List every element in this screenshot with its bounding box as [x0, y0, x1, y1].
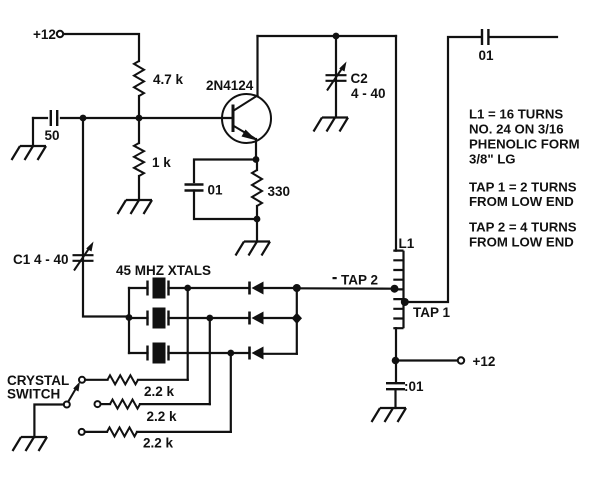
inductor L1 — [393, 251, 403, 329]
ground C2 — [314, 118, 349, 132]
wire C1 branch — [83, 118, 129, 317]
diode D3 — [248, 347, 251, 360]
wire L1 bottom — [395, 328, 397, 383]
node D2 bus junction (diamond) — [292, 313, 302, 324]
terminal switch position 2 — [95, 401, 101, 407]
node L1 bottom junction — [392, 357, 400, 365]
node TAP 1 — [401, 298, 409, 306]
crystal Y1 45 MHz — [148, 281, 169, 296]
node base junction R1/R2 — [136, 115, 143, 122]
svg-text:NO. 24 ON 3/16: NO. 24 ON 3/16 — [469, 122, 564, 137]
svg-text:2N4124: 2N4124 — [206, 78, 254, 93]
svg-text::01: :01 — [404, 379, 424, 394]
wire output — [490, 36, 558, 38]
resistor R3 330 — [252, 170, 262, 206]
wire collector up — [256, 36, 258, 96]
capacitor C2 4-40 trimmer — [326, 75, 347, 81]
svg-text:4 - 40: 4 - 40 — [351, 86, 386, 101]
capacitor C3 .01 emitter — [185, 185, 204, 191]
svg-text:1 k: 1 k — [152, 155, 171, 170]
terminal +12 feed — [458, 357, 464, 363]
wire to +12 feed — [396, 359, 458, 361]
wire Y1 right lead — [169, 287, 188, 289]
node C2 junction — [333, 33, 340, 40]
ground input — [12, 146, 47, 160]
capacitor .01 output — [482, 29, 488, 45]
svg-text:TAP 2 = 4 TURNS: TAP 2 = 4 TURNS — [469, 220, 577, 235]
svg-text:C2: C2 — [351, 71, 368, 86]
wire Y3 right lead — [169, 352, 231, 354]
ground R2 — [118, 200, 153, 214]
wire Y1 node down to R4 — [187, 288, 189, 380]
svg-text:4.7 k: 4.7 k — [153, 72, 184, 87]
resistor R2 1 k — [134, 143, 144, 176]
svg-text:SWITCH: SWITCH — [7, 387, 60, 402]
node Y2 output junction — [206, 315, 213, 322]
svg-text:FROM LOW END: FROM LOW END — [469, 194, 574, 209]
wire R5 right lead — [140, 403, 210, 405]
node emitter junction — [253, 156, 260, 163]
wire R1 to base node — [138, 96, 140, 118]
wire R4 right lead — [138, 379, 188, 381]
svg-text:FROM LOW END: FROM LOW END — [469, 235, 574, 250]
resistor R4 2.2 k — [108, 375, 139, 384]
wire Y3 to D3 — [231, 352, 250, 354]
wire Y3 left lead — [129, 352, 148, 354]
transistor Q1 2N4124 body — [222, 94, 271, 143]
node Y1 output junction — [184, 285, 191, 292]
svg-text:3/8" LG: 3/8" LG — [469, 152, 516, 167]
wire Y2 to D2 — [210, 317, 250, 319]
terminal +12 supply — [57, 31, 63, 37]
wire Y2 left lead — [129, 317, 148, 319]
capacitor C1 4-40 trimmer — [73, 255, 94, 261]
node D1 bus junction — [293, 284, 301, 292]
svg-text:L1 = 16 TURNS: L1 = 16 TURNS — [469, 107, 563, 122]
wire +12 to R1 — [64, 34, 140, 61]
svg-text:TAP 1: TAP 1 — [413, 305, 451, 320]
wire C3 bottom — [194, 191, 257, 220]
svg-text:45 MHZ XTALS: 45 MHZ XTALS — [116, 263, 211, 278]
crystal Y2 45 MHz — [148, 311, 169, 326]
wire bypass to ground — [394, 390, 396, 409]
wire R4 left lead — [85, 379, 107, 381]
svg-text:PHENOLIC FORM: PHENOLIC FORM — [469, 137, 580, 152]
crystal Y3 45 MHz — [148, 346, 169, 361]
node TAP 2 — [391, 285, 399, 293]
wire top rail — [258, 35, 397, 37]
wire R3 bottom lead — [256, 206, 258, 219]
svg-text:330: 330 — [268, 184, 291, 199]
switch S1 arm arrowhead — [73, 382, 80, 392]
wire base node — [61, 117, 233, 119]
transistor Q1 emitter arrowhead — [242, 130, 258, 141]
terminal switch common — [64, 402, 70, 408]
transistor Q1 collector stroke — [233, 96, 258, 112]
terminal switch position 3 — [79, 429, 85, 435]
wire Y2 node down to R5 — [209, 318, 211, 404]
transistor Q1 emitter stroke — [233, 126, 254, 139]
wire R3 top lead — [256, 160, 258, 171]
svg-text:2.2 k: 2.2 k — [147, 409, 178, 424]
svg-text:TAP 2: TAP 2 — [341, 273, 378, 288]
resistor R1 4.7 k — [134, 61, 144, 96]
wire crystal left bus — [128, 288, 130, 353]
transistor Q1 base bar — [232, 105, 235, 133]
wire Y3 node down to R6 — [230, 353, 232, 432]
capacitor :01 bypass — [386, 383, 405, 389]
wire Y2 right lead — [169, 317, 210, 319]
svg-text:+12: +12 — [33, 27, 56, 42]
switch S1 arm — [68, 388, 76, 402]
resistor R6 2.2 k — [107, 427, 137, 436]
node base junction C1 — [80, 115, 87, 122]
ground bypass — [372, 408, 407, 422]
ground emitter — [236, 242, 271, 256]
wire D1 to bus — [263, 287, 297, 289]
wire R5 left lead — [101, 403, 110, 405]
node R3/C3 junction — [254, 216, 261, 223]
svg-text:2.2 k: 2.2 k — [144, 384, 175, 399]
node crystal bus junction — [126, 314, 133, 321]
wire D2 to bus — [263, 317, 297, 319]
wire Y1 to D1 — [188, 287, 250, 289]
svg-text:01: 01 — [479, 48, 495, 63]
wire switch common to ground — [34, 405, 63, 438]
svg-text:C1 4 - 40: C1 4 - 40 — [13, 252, 69, 267]
wire emitter to C3 — [194, 160, 256, 183]
wire input left segment — [33, 117, 47, 119]
tick before TAP 2 — [333, 277, 337, 279]
svg-text:L1: L1 — [399, 236, 415, 251]
wire Y1 left lead — [129, 287, 148, 289]
wire R2 top lead — [138, 118, 140, 143]
ground switch — [13, 437, 48, 451]
wire TAP 2 feed — [297, 287, 395, 290]
wire right rail to L1 — [395, 36, 397, 251]
svg-text:01: 01 — [208, 183, 224, 198]
svg-text:+12: +12 — [473, 354, 496, 369]
resistor R5 2.2 k — [110, 400, 140, 409]
wire diode right bus — [296, 288, 298, 354]
wire input stub to ground — [32, 118, 34, 146]
wire R6 left lead — [85, 431, 107, 433]
capacitor 50 pF — [51, 110, 57, 126]
wire D3 to bus — [263, 353, 297, 355]
wire TAP 1 to coupling cap — [405, 37, 481, 302]
svg-text:TAP 1 = 2 TURNS: TAP 1 = 2 TURNS — [469, 180, 577, 195]
wire C2 branch — [335, 36, 337, 117]
node Y3 output junction — [227, 350, 234, 357]
terminal switch position 1 — [79, 377, 85, 383]
diode D2 — [248, 312, 251, 325]
wire to emitter ground — [256, 219, 258, 242]
diode D1 — [248, 282, 251, 295]
wire R6 right lead — [137, 431, 231, 433]
wire emitter down — [255, 139, 257, 160]
svg-text:50: 50 — [45, 128, 60, 143]
svg-text:2.2 k: 2.2 k — [143, 436, 174, 451]
wire R2 bottom lead — [138, 176, 140, 200]
